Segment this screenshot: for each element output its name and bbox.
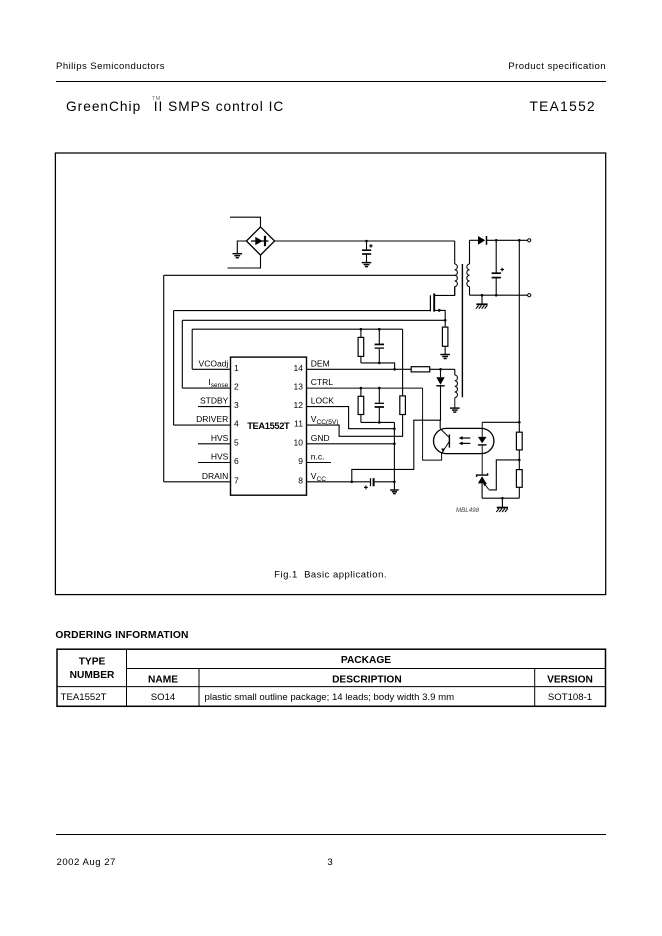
- svg-text:SOT108-1: SOT108-1: [548, 692, 592, 703]
- node source/Isense junction: [444, 319, 447, 322]
- svg-text:MBL498: MBL498: [456, 507, 480, 514]
- transformer T1 auxiliary winding: [455, 369, 458, 407]
- wire DEM to aux winding: [430, 368, 455, 370]
- svg-text:10: 10: [294, 437, 304, 447]
- svg-text:NUMBER: NUMBER: [70, 670, 115, 681]
- node + sense tap: [518, 239, 521, 242]
- wire AC input line top: [230, 217, 261, 227]
- ground (aux winding): [450, 407, 460, 409]
- ground (IC bus): [390, 489, 399, 491]
- svg-text:TEA1552T: TEA1552T: [247, 421, 290, 431]
- svg-text:12: 12: [294, 400, 304, 410]
- chassis ground (secondary): [476, 295, 488, 309]
- svg-text:8: 8: [298, 475, 303, 485]
- ordering table: [57, 649, 606, 706]
- transistor Q1 (power MOSFET): [430, 287, 454, 321]
- svg-text:CTRL: CTRL: [311, 377, 333, 387]
- svg-text:DESCRIPTION: DESCRIPTION: [332, 674, 402, 685]
- node LOCK join: [393, 427, 396, 430]
- wire secondary top rail: [470, 239, 479, 241]
- node divider mid: [518, 459, 521, 462]
- svg-text:TYPE: TYPE: [79, 656, 106, 667]
- wire + feedback rail down: [518, 240, 520, 432]
- transformer T1 core: [461, 264, 463, 397]
- svg-text:DRIVER: DRIVER: [196, 414, 228, 424]
- svg-text:VCOadj: VCOadj: [199, 358, 229, 368]
- wire output - rail: [470, 294, 528, 296]
- svg-text:HVS: HVS: [211, 452, 229, 462]
- svg-text:Isense: Isense: [208, 377, 228, 389]
- svg-text:TEA1552T: TEA1552T: [61, 692, 107, 703]
- wire divider tap to TL431 ref: [489, 460, 520, 490]
- wire n.c. stub: [307, 462, 332, 464]
- wire opto emitter to CTRL: [423, 388, 442, 460]
- node reservoir cap tap: [365, 240, 368, 243]
- svg-text:DRAIN: DRAIN: [202, 471, 228, 481]
- node C2 top: [495, 239, 498, 242]
- resistor R6 (divider upper): [516, 432, 522, 450]
- wire R1 to ground: [444, 346, 446, 354]
- terminal output -: [528, 294, 531, 297]
- resistor R1 (sense): [442, 327, 448, 346]
- zener/TL431 D3: [477, 473, 488, 498]
- svg-text:2: 2: [234, 382, 239, 392]
- chassis ground (TL431): [496, 498, 508, 512]
- terminal output +: [528, 239, 531, 242]
- wire TL431 gnd rail: [482, 497, 519, 499]
- wire R4 bottom to VCC(5V): [307, 415, 403, 437]
- svg-text:STDBY: STDBY: [200, 396, 229, 406]
- transformer T1 primary winding: [455, 241, 458, 295]
- svg-text:SO14: SO14: [151, 692, 176, 703]
- capacitor C3: [375, 329, 384, 363]
- svg-text:4: 4: [234, 419, 239, 429]
- wire DEM line: [307, 368, 412, 370]
- svg-text:DEM: DEM: [311, 358, 330, 368]
- svg-text:9: 9: [298, 456, 303, 466]
- wire output + rail: [486, 239, 527, 241]
- svg-text:6: 6: [234, 456, 239, 466]
- node gnd rail tap: [501, 497, 504, 500]
- wire R7 to gnd rail: [518, 487, 520, 498]
- capacitor C2 (output, electrolytic): [492, 240, 504, 295]
- svg-text:VERSION: VERSION: [547, 674, 593, 685]
- wire GND pin: [307, 443, 395, 445]
- capacitor C5 (VCC, electrolytic): [364, 478, 394, 489]
- capacitor C1 (reservoir, electrolytic): [362, 241, 373, 262]
- wire STDBY stub: [198, 406, 231, 408]
- wire HVS stub pin6: [198, 462, 231, 464]
- pin labels left: [196, 358, 228, 481]
- wire TL431 ref arrow: [483, 482, 489, 489]
- wire D2 to VCC node: [352, 386, 441, 482]
- resistor R2: [358, 329, 364, 363]
- capacitor C4: [375, 388, 384, 422]
- wire CTRL line: [307, 387, 423, 389]
- svg-text:LOCK: LOCK: [311, 396, 334, 406]
- svg-text:5: 5: [234, 437, 239, 447]
- svg-text:n.c.: n.c.: [311, 452, 325, 462]
- bridge rectifier BR1: [246, 227, 274, 255]
- pin numbers left: [234, 363, 239, 486]
- wire R2C3 bottom to DEM: [361, 363, 395, 369]
- svg-text:14: 14: [294, 363, 304, 373]
- svg-text:plastic small outline package;: plastic small outline package; 14 leads;…: [205, 692, 455, 703]
- node VCC cap join: [393, 481, 396, 484]
- op-amp/IC U1 TEA1552T: [231, 357, 307, 495]
- optocoupler U2: [434, 422, 494, 475]
- resistor R7 (divider lower): [516, 470, 522, 488]
- wire LED anode: [482, 421, 519, 423]
- wire R3C4 bottom rail: [361, 421, 395, 423]
- wire AC input line bottom: [228, 255, 261, 268]
- pin numbers right: [294, 363, 304, 486]
- svg-text:HVS: HVS: [211, 433, 229, 443]
- wire DRAIN loop: [164, 275, 455, 482]
- wire LOCK route: [307, 407, 395, 429]
- ground (R1): [440, 354, 450, 356]
- wire divider mid: [518, 450, 520, 470]
- node D2 anode: [439, 368, 442, 371]
- pin labels right: [311, 358, 339, 482]
- svg-text:NAME: NAME: [148, 674, 178, 685]
- wire source to R1: [444, 320, 446, 327]
- svg-text:VCC: VCC: [311, 471, 326, 483]
- svg-text:PACKAGE: PACKAGE: [341, 655, 391, 666]
- svg-text:1: 1: [234, 363, 239, 373]
- resistor R5 (DEM): [411, 367, 430, 372]
- wire opto collector to VCC node: [439, 420, 441, 428]
- diode D2 (VCC rectifier): [436, 369, 444, 386]
- svg-text:VCC(5V): VCC(5V): [311, 414, 339, 426]
- ground (bridge): [233, 241, 247, 258]
- svg-text:7: 7: [234, 475, 239, 485]
- wire DRIVER line (gate): [174, 311, 431, 426]
- resistor R4: [400, 396, 406, 415]
- node C2 bottom: [495, 294, 498, 297]
- wire Isense line: [182, 320, 445, 388]
- svg-text:Fig.1 Basic application.: Fig.1 Basic application.: [274, 569, 387, 580]
- ground (C1): [362, 262, 372, 264]
- resistor R3: [358, 388, 364, 422]
- svg-text:11: 11: [294, 419, 303, 429]
- node LED anode tap: [518, 421, 521, 424]
- wire HVS stub pin5: [198, 443, 231, 445]
- diode D1 (output rectifier): [478, 236, 487, 245]
- wire VCC pin: [307, 481, 371, 483]
- wire HV DC rail: [275, 240, 455, 242]
- node secondary gnd tap: [481, 294, 484, 297]
- svg-text:13: 13: [294, 382, 304, 392]
- svg-text:3: 3: [234, 400, 239, 410]
- node GND join: [393, 443, 396, 446]
- wire R4 branch (VCOadj to R4): [402, 329, 404, 396]
- wire ground bus vertical: [393, 422, 395, 489]
- transformer T1 secondary winding: [467, 240, 470, 295]
- svg-text:GND: GND: [311, 433, 330, 443]
- wire VCOadj line: [192, 329, 402, 369]
